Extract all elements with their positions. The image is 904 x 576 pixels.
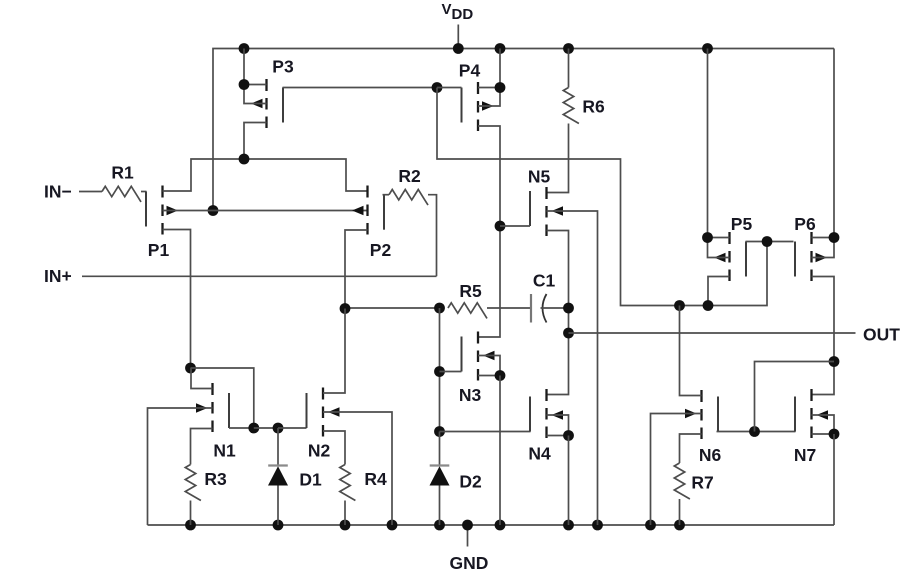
svg-text:N5: N5 <box>528 167 551 187</box>
wire R4 to GND <box>344 501 346 526</box>
node VDD junction stub <box>453 43 464 54</box>
svg-text:R2: R2 <box>398 166 421 186</box>
wire P3 source lead <box>244 84 267 86</box>
svg-text:N2: N2 <box>308 441 331 461</box>
resistor R1 <box>102 186 141 202</box>
svg-text:IN−: IN− <box>44 182 72 202</box>
wire P5 source lead <box>708 237 730 239</box>
wire P4 drain down to N3 drain <box>478 126 500 337</box>
transistor P5 <box>728 232 730 244</box>
wire N5 body down to GND <box>547 211 598 525</box>
svg-text:VDD: VDD <box>442 1 474 23</box>
svg-text:GND: GND <box>450 553 489 573</box>
node N3 source junction <box>495 370 506 381</box>
node compensation input junction <box>340 303 351 314</box>
wire N2 source to R4 <box>323 431 345 465</box>
wire N7 source lead <box>812 433 835 435</box>
wire P5 gate to P6 gate <box>746 241 794 243</box>
svg-text:P1: P1 <box>148 240 170 260</box>
svg-text:R3: R3 <box>204 469 227 489</box>
wire R7 to GND <box>679 499 681 525</box>
wire P1 source to P2 source <box>163 159 368 191</box>
node GND junction R4 <box>340 520 351 531</box>
wire N3 body to source <box>478 356 500 376</box>
wire P1 drain down <box>163 230 191 368</box>
svg-text:D1: D1 <box>299 470 322 490</box>
svg-text:R1: R1 <box>111 163 134 183</box>
diode D1 <box>277 428 279 466</box>
wire N4 source lead <box>547 435 569 437</box>
wire P6 source lead <box>812 237 835 239</box>
transistor P3 <box>265 79 267 91</box>
node P3 drain to source-line junction <box>239 154 250 165</box>
node N7 drain gate-feedback junction <box>829 356 840 367</box>
node P5/P6 gate junction <box>762 236 773 247</box>
node GND junction D2 <box>434 520 445 531</box>
transistor N3 <box>477 332 479 344</box>
transistor N6 <box>700 390 702 402</box>
resistor R4 <box>340 465 356 501</box>
wire N7 source down to GND <box>833 434 835 525</box>
svg-text:P2: P2 <box>370 240 392 260</box>
wire VDD to R6 <box>568 49 570 88</box>
svg-text:C1: C1 <box>533 271 556 291</box>
node GND junction R3 <box>185 520 196 531</box>
wire P6 drain down to N7 drain <box>812 277 835 395</box>
wire N5 gate lead <box>500 225 530 227</box>
wire P2 gate to R2 <box>383 194 390 196</box>
node P1 drain junction <box>185 363 196 374</box>
node P5 drain junction <box>703 300 714 311</box>
node P4 drain to N5 gate junction <box>495 221 506 232</box>
wire IN+ line <box>82 275 437 277</box>
wire N4 gate lead <box>440 431 531 433</box>
svg-text:R7: R7 <box>691 473 713 493</box>
wire R2 to IN+ line <box>428 195 437 277</box>
capacitor C1 <box>530 294 532 323</box>
wire C1 to N5 source line <box>541 307 569 309</box>
wire VDD to P5 source and body <box>708 49 730 258</box>
node R5 left junction <box>434 303 445 314</box>
svg-text:D2: D2 <box>459 472 482 492</box>
wire N4 body to source <box>547 415 569 436</box>
node P3 source junction <box>239 79 250 90</box>
wire N2 drain up <box>323 309 345 394</box>
VDD terminal stub <box>457 25 459 49</box>
node bias gate junction <box>432 82 443 93</box>
node VDD to P1/P2 body junction <box>208 205 219 216</box>
svg-text:N6: N6 <box>699 445 722 465</box>
wire N3 source down to GND <box>499 376 501 526</box>
svg-text:P5: P5 <box>731 214 753 234</box>
wire IN- to R1 <box>79 191 102 193</box>
node N1 gate line junction <box>248 423 259 434</box>
wire P3 drain down <box>244 123 267 160</box>
wire VDD to P3 source and body <box>244 49 267 104</box>
wire P4 source lead <box>478 87 500 89</box>
svg-text:N1: N1 <box>213 441 236 461</box>
resistor R6 <box>563 88 579 124</box>
node C1 right junction <box>563 303 574 314</box>
wire P3 gate to bias node <box>283 87 438 89</box>
node GND junction N3 source <box>495 520 506 531</box>
node GND junction R7 <box>674 520 685 531</box>
transistor P1 <box>161 186 163 198</box>
transistor P6 <box>810 232 812 244</box>
wire N6 gate to N7 gate <box>717 431 796 433</box>
node D1 top junction <box>273 423 284 434</box>
wire N6 body to GND <box>651 414 702 526</box>
transistor P4 <box>477 82 479 94</box>
wire gate line to D1 <box>254 427 278 429</box>
resistor R3 <box>185 465 201 501</box>
wire N6 drain up to bias line <box>680 306 702 396</box>
wire P1/P2 body line <box>163 210 368 212</box>
wire N5 source down to N4 drain <box>547 231 569 395</box>
node P6 source junction <box>829 232 840 243</box>
node VDD junction P3 branch <box>239 43 250 54</box>
wire gate junction up to output device drain <box>755 362 835 432</box>
wire N1 drain lead <box>191 368 213 389</box>
wire P5 drain down <box>708 277 730 306</box>
wire bias node to P4 gate <box>437 87 462 89</box>
wire D1 node to N2 gate <box>278 427 307 429</box>
node GND junction N5 body <box>592 520 603 531</box>
wire N4 source down to GND <box>568 436 570 526</box>
VDD rail <box>213 49 834 211</box>
node P5 source junction <box>702 232 713 243</box>
wire R1 to P1 gate <box>141 191 147 193</box>
wire R6 to N5 drain <box>547 124 569 193</box>
wire VDD to P4 source and body <box>478 49 500 107</box>
wire R5 node down to N3 gate and D2 <box>439 308 441 432</box>
node GND junction D1 <box>273 520 284 531</box>
node D2 top junction <box>434 426 445 437</box>
node VDD junction P5 branch <box>702 43 713 54</box>
node bias to N6 junction <box>674 300 685 311</box>
svg-text:N4: N4 <box>528 444 551 464</box>
node GND junction N4 source <box>563 520 574 531</box>
svg-text:IN+: IN+ <box>44 266 72 286</box>
node OUT junction <box>563 328 574 339</box>
node GND junction N2 body <box>387 520 398 531</box>
node N3 gate junction <box>434 366 445 377</box>
node P4 source junction <box>495 82 506 93</box>
wire N1 gate loop <box>191 368 254 428</box>
svg-text:OUT: OUT <box>863 325 900 345</box>
wire N3 gate lead <box>440 371 462 373</box>
node N7 source junction <box>829 429 840 440</box>
svg-text:R4: R4 <box>364 469 387 489</box>
transistor N7 <box>810 389 812 401</box>
transistor N4 <box>545 389 547 401</box>
wire P2 drain down <box>345 230 368 309</box>
diode D2 <box>439 432 441 466</box>
svg-text:N3: N3 <box>459 385 482 405</box>
wire VDD to P6 source and body <box>812 49 835 258</box>
svg-text:N7: N7 <box>794 445 816 465</box>
transistor N5 <box>545 187 547 199</box>
node N6/N7 gate junction <box>749 426 760 437</box>
resistor R7 <box>674 463 690 499</box>
resistor R5 <box>448 303 487 319</box>
GND rail <box>148 524 835 526</box>
node N4 source junction <box>563 430 574 441</box>
wire N1 body to GND <box>148 408 213 525</box>
wire P2 drain node to R5 <box>345 307 440 309</box>
wire R5 to C1 <box>487 307 531 309</box>
node GND junction stub <box>462 520 473 531</box>
wire R3 to GND <box>190 501 192 526</box>
wire N1 gate lead <box>229 427 254 429</box>
transistor N2 <box>322 388 324 400</box>
wire N3 source lead <box>478 375 500 377</box>
wire N2 body to GND <box>323 412 392 525</box>
svg-text:P6: P6 <box>794 214 816 234</box>
wire N7 body to source <box>812 415 835 434</box>
svg-text:R6: R6 <box>582 97 605 117</box>
wire N6 source to R7 <box>680 434 702 463</box>
node GND junction N6 body <box>645 520 656 531</box>
resistor R2 <box>389 190 428 206</box>
GND terminal stub <box>467 525 469 547</box>
svg-text:P3: P3 <box>272 57 294 77</box>
transistor N1 <box>211 383 213 395</box>
svg-text:P4: P4 <box>459 61 481 81</box>
node VDD junction P4 branch <box>495 43 506 54</box>
node VDD junction R6 branch <box>563 43 574 54</box>
transistor P2 <box>366 186 368 198</box>
wire bias node down and across <box>437 88 767 306</box>
wire OUT line <box>569 332 856 334</box>
svg-text:R5: R5 <box>459 281 482 301</box>
wire N1 source to R3 <box>191 429 213 465</box>
